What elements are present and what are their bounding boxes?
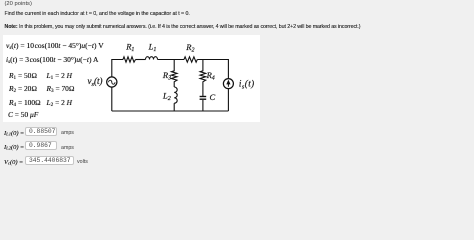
header: points [5, 1, 32, 7]
svg-text:R2: R2 [185, 42, 194, 54]
answer row 1 [4, 130, 24, 137]
equation is(t) [6, 56, 98, 64]
svg-text:is(t): is(t) [239, 79, 255, 91]
resistor R2 [184, 57, 197, 62]
wire: middle branch top (node A to R3) [173, 60, 175, 71]
bottom rail [112, 110, 229, 112]
svg-text:R1: R1 [125, 41, 134, 53]
circuit schematic [0, 0, 474, 180]
inductor L2 [174, 87, 177, 103]
current source arrowhead [226, 80, 230, 85]
wire: branch 2 top (node B to R4) [202, 60, 204, 71]
current source arrow stem [227, 83, 229, 87]
value C [8, 111, 38, 119]
svg-text:L2: L2 [162, 90, 171, 102]
values R1 L1 [9, 72, 37, 80]
values R2 R3 [9, 85, 37, 93]
resistor R1 [123, 57, 136, 62]
svg-text:L1: L1 [148, 41, 157, 53]
answer row 3 [4, 159, 23, 166]
svg-text:R3: R3 [162, 70, 171, 82]
inductor L1 [146, 57, 158, 60]
svg-text:C: C [210, 92, 216, 102]
voltage source vs circle [107, 77, 117, 87]
wire: top rail R1 to L1 [136, 59, 146, 61]
voltage source sine symbol [109, 80, 115, 84]
svg-text:vs(t): vs(t) [88, 76, 103, 88]
wire: top rail L1 to node A [158, 59, 185, 61]
wire: top rail R2 to right corner [197, 60, 228, 79]
white problem panel [3, 35, 260, 123]
header: problem statement [5, 11, 190, 17]
wire: right rail below source [227, 89, 229, 112]
equation vs(t) [6, 42, 104, 50]
wire: L2 to bottom rail [173, 103, 175, 111]
header: note [5, 24, 361, 30]
resistor R3 [171, 70, 177, 83]
wire: capacitor to bottom rail [202, 100, 204, 111]
answer row 2 [4, 144, 24, 151]
wire: left rail below source [111, 87, 113, 111]
wire: R3 to L2 [173, 83, 175, 87]
wire: top rail left segment (source to R1) [112, 60, 123, 78]
values R4 L2 [9, 99, 41, 107]
wire: R4 to capacitor [202, 83, 204, 96]
resistor R4 [200, 70, 206, 83]
capacitor C plates [200, 96, 207, 98]
current source is circle [223, 79, 233, 89]
svg-text:R4: R4 [206, 70, 215, 82]
